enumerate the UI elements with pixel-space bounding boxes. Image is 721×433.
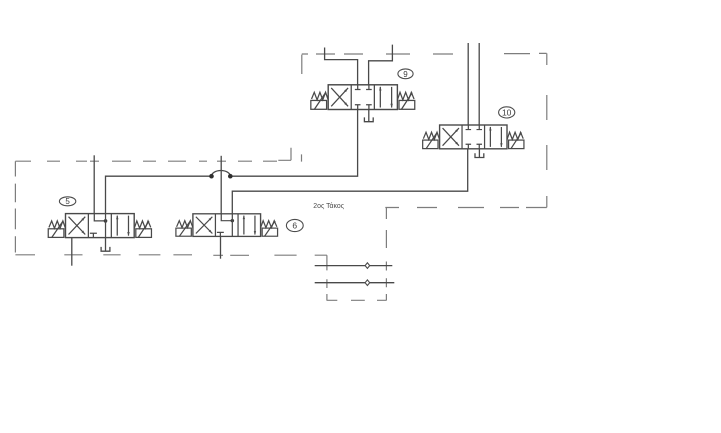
- valve 5 tank stem: [105, 238, 107, 251]
- wire crossover arc jump: [212, 171, 231, 177]
- coupler diamond 1: [365, 263, 370, 269]
- svg-text:5: 5: [65, 197, 70, 206]
- label 6: [286, 219, 303, 231]
- valve 10 tank stem: [478, 149, 480, 157]
- wire stub into valve 6 port A: [220, 156, 222, 214]
- junction dot left: [209, 174, 214, 179]
- valve 9 (4/3 solenoid valve): [311, 85, 415, 110]
- svg-text:9: 9: [403, 70, 408, 79]
- bottom quick-coupler dashed box: [327, 208, 387, 300]
- svg-text:6: 6: [292, 221, 297, 231]
- wire valve 6 tank line: [220, 236, 222, 258]
- coupler diamond 2: [365, 280, 370, 286]
- wire valve 5 drain line: [71, 238, 73, 266]
- right manifold block dashed boundary: [302, 53, 547, 207]
- tank symbol under valve 10: [475, 153, 484, 157]
- wire valve 10 outlet down and left to valve 6 (2nd speed line): [232, 149, 467, 214]
- tank symbol under valve 5: [101, 247, 110, 251]
- left manifold block dashed boundary: [15, 148, 327, 256]
- wire P-line stub to valve 9 port A: [325, 48, 358, 85]
- label 5: [59, 197, 75, 206]
- wire feed lines to valve 10: [468, 43, 479, 125]
- quick coupler line 2: [315, 282, 395, 284]
- wire T-line stub to valve 9 port B: [369, 45, 393, 85]
- label 9: [398, 69, 413, 79]
- svg-text:2ος Τάκος: 2ος Τάκος: [313, 202, 344, 210]
- valve 6 (4/3 solenoid valve): [176, 214, 278, 237]
- valve 9 tank stem: [368, 110, 370, 122]
- tank symbol under valve 9: [364, 117, 373, 121]
- wire valve 9 outlet down and left to valve 5: [106, 110, 358, 214]
- quick coupler line 1: [315, 265, 393, 267]
- valve 5 (4/3 solenoid valve): [48, 214, 151, 238]
- label 10: [499, 107, 515, 118]
- svg-text:10: 10: [502, 107, 512, 117]
- wire stub into valve 5 port A: [93, 155, 95, 213]
- junction dot right: [228, 174, 233, 179]
- valve 10 (4/3 solenoid valve): [423, 125, 524, 149]
